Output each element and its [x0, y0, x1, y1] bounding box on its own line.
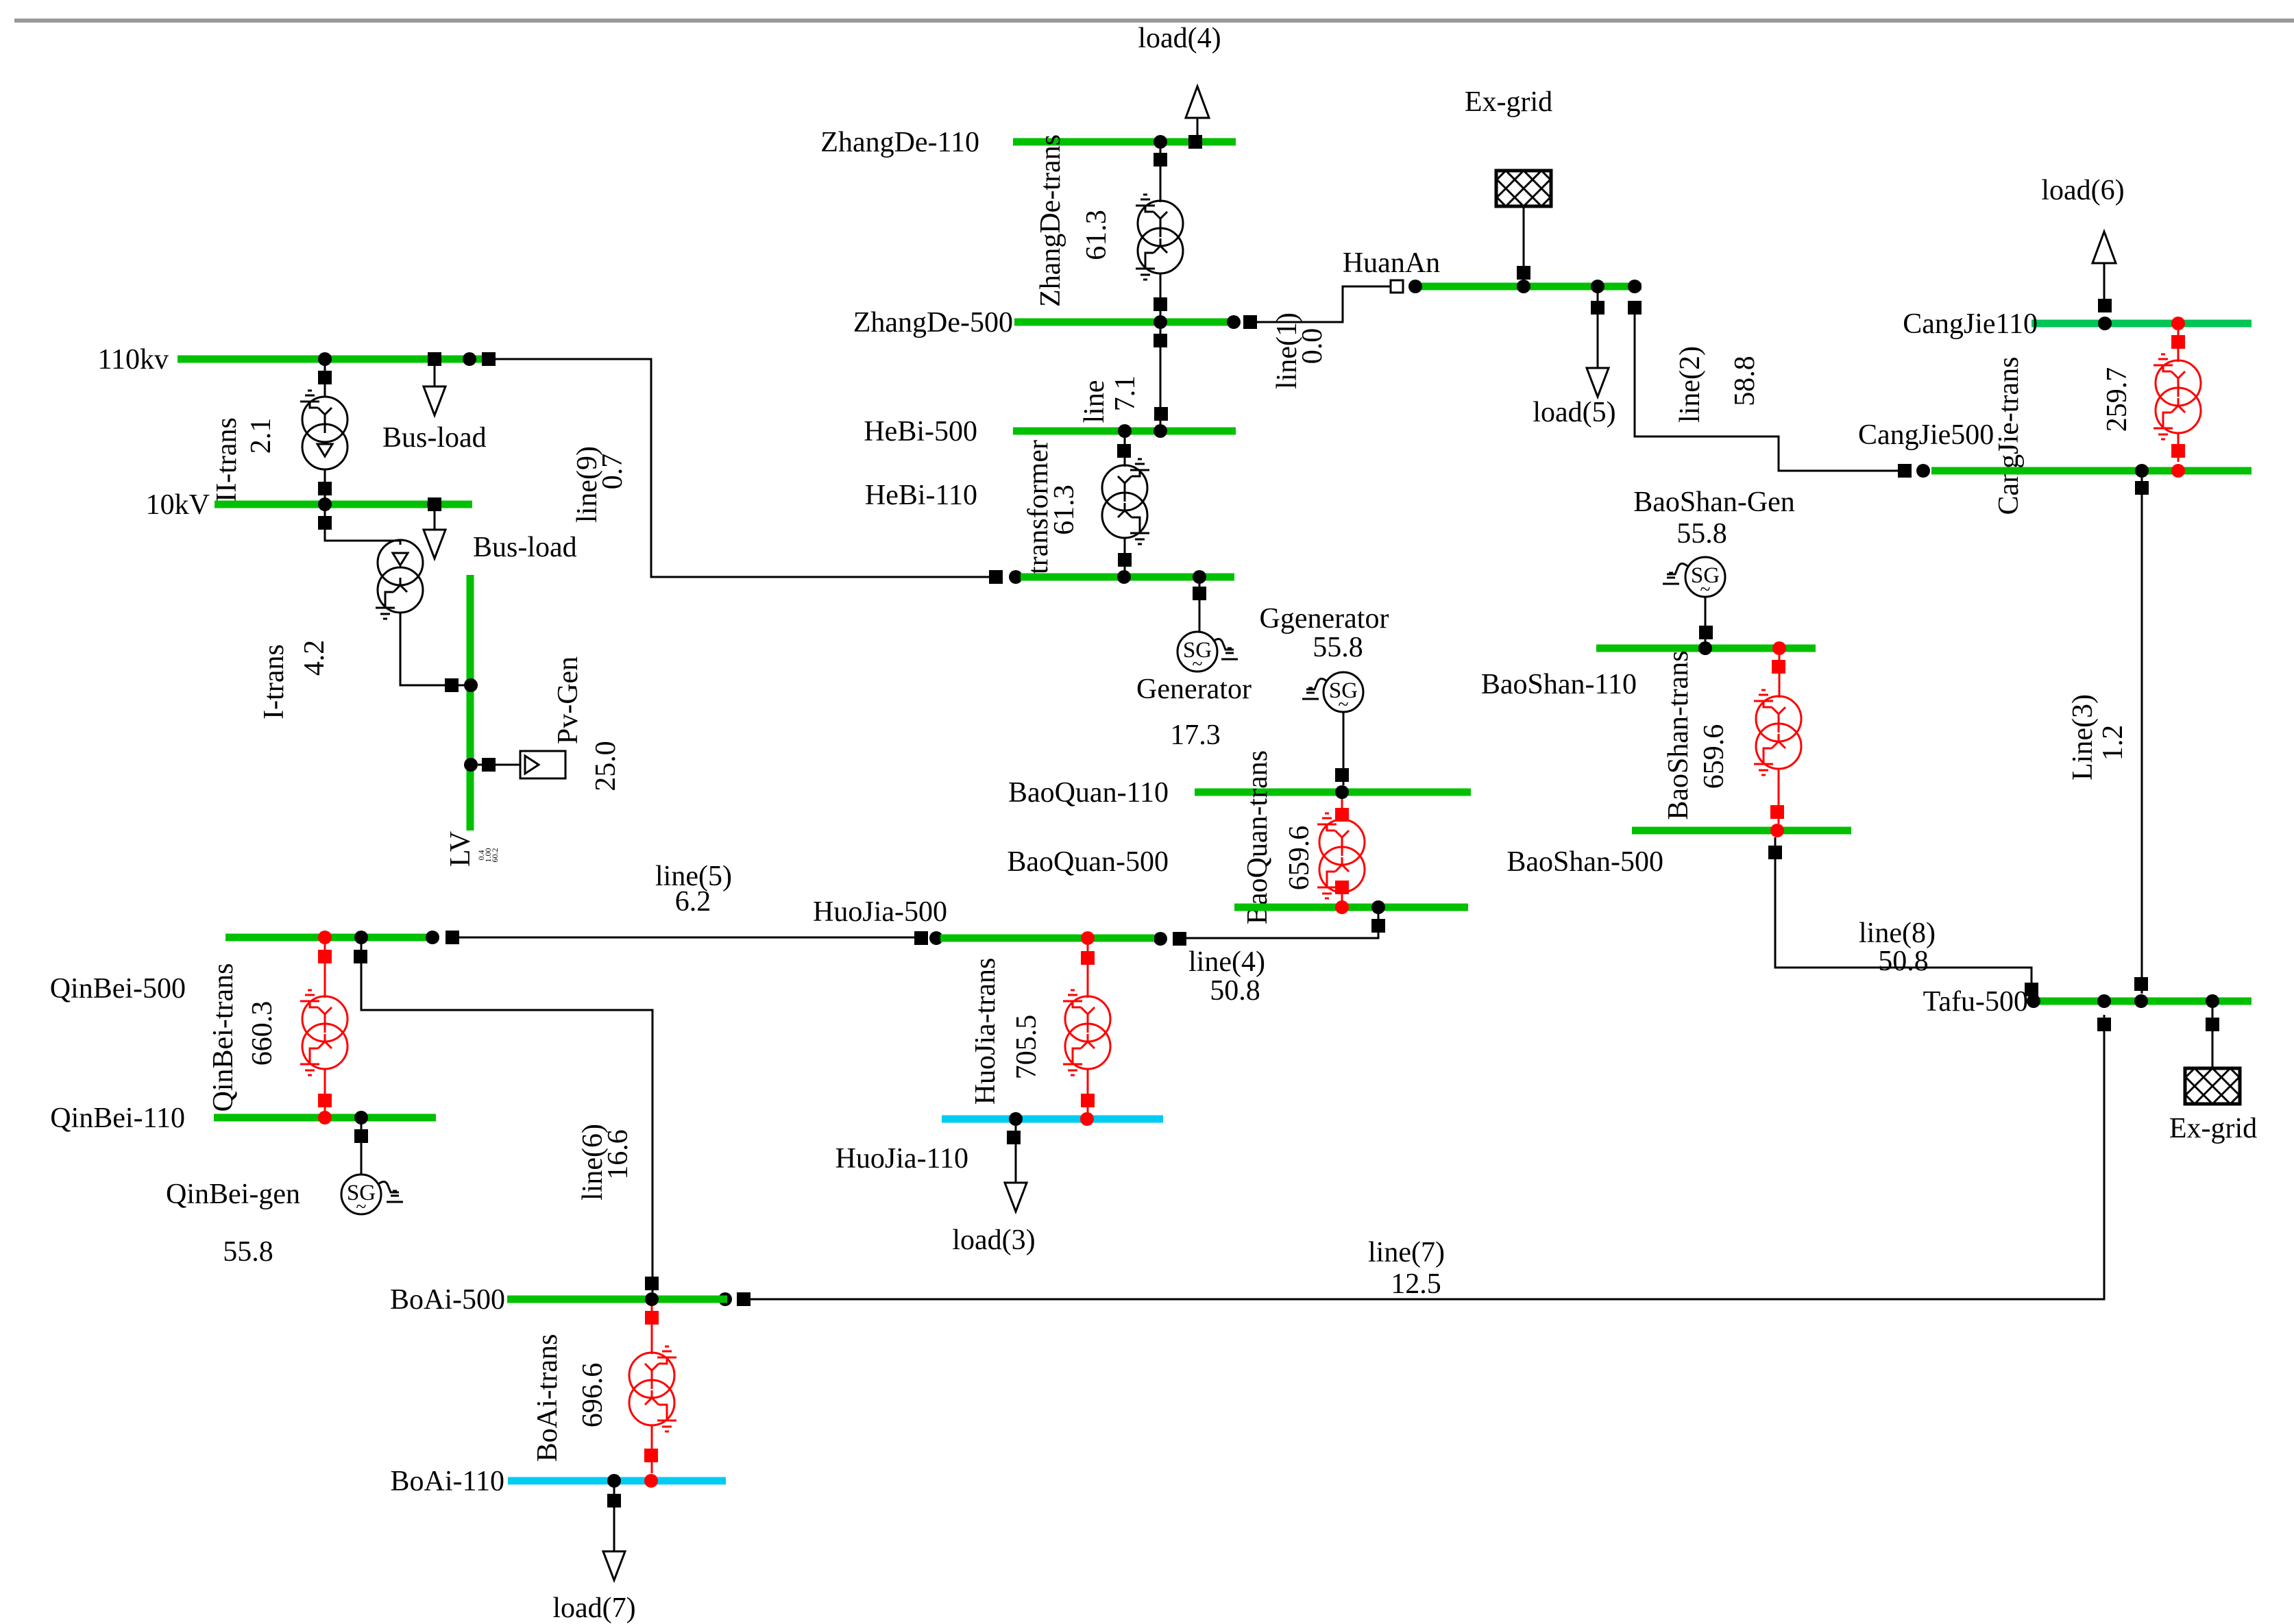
svg-text:1.2: 1.2	[2097, 725, 2129, 761]
svg-text:4.2: 4.2	[299, 640, 330, 676]
transformer HuoJia-trans 705.5	[970, 945, 1110, 1114]
node dot BoAi-110 load tap	[607, 1474, 621, 1488]
external grid Ex-grid (HuanAn)	[1465, 86, 1552, 281]
node red dot BoAi-110	[644, 1474, 658, 1488]
svg-text:BoAi-500: BoAi-500	[390, 1284, 505, 1316]
node red dot BaoShan-500 trans tap	[1770, 824, 1784, 837]
svg-text:12.5: 12.5	[1391, 1268, 1441, 1300]
transformer BoAi-trans 696.6	[532, 1306, 676, 1473]
transformer BaoShan-trans 659.6	[1663, 650, 1801, 824]
svg-text:Bus-load: Bus-load	[473, 532, 577, 563]
svg-text:BaoShan-trans: BaoShan-trans	[1663, 650, 1694, 820]
svg-text:CangJie500: CangJie500	[1858, 419, 1994, 451]
svg-text:Pv-Gen: Pv-Gen	[552, 656, 584, 744]
external grid Ex-grid (Tafu)	[2169, 1008, 2257, 1144]
svg-text:CangJie110: CangJie110	[1903, 308, 2038, 340]
bus QinBei-110	[50, 1103, 436, 1134]
svg-text:50.8: 50.8	[1878, 946, 1929, 977]
bus HuanAn	[1343, 247, 1642, 286]
svg-text:259.7: 259.7	[2101, 367, 2133, 432]
transformer BaoQuan-trans 659.6	[1242, 750, 1365, 924]
bus 10kV	[146, 489, 472, 521]
svg-text:BaoQuan-trans: BaoQuan-trans	[1242, 750, 1273, 924]
node dot Tafu-500 exgrid tap	[2206, 994, 2219, 1008]
svg-text:line(4): line(4)	[1188, 946, 1265, 978]
svg-text:2.1: 2.1	[245, 418, 277, 454]
svg-text:QinBei-500: QinBei-500	[50, 973, 186, 1005]
bus HuoJia-110	[835, 1119, 1163, 1174]
bus 110kv	[98, 344, 488, 376]
node red dot BaoQuan-500 trans	[1335, 900, 1349, 914]
svg-text:BaoQuan-110: BaoQuan-110	[1008, 777, 1169, 809]
load load(6)	[2041, 175, 2124, 312]
svg-text:Ggenerator: Ggenerator	[1260, 603, 1389, 635]
node dot CangJie500 line3 tap	[2135, 464, 2149, 478]
line label line 7.1	[1079, 376, 1141, 423]
line L2 label line(2) 58.8	[1674, 346, 1761, 423]
node junction BaoShan-110 gen	[1698, 641, 1712, 655]
svg-text:BoAi-trans: BoAi-trans	[532, 1334, 563, 1462]
node dot QinBei-500 line6 tap	[354, 931, 368, 944]
svg-text:Tafu-500: Tafu-500	[1923, 986, 2028, 1018]
svg-text:QinBei-110: QinBei-110	[50, 1103, 185, 1134]
wire line(5)	[446, 931, 943, 945]
svg-text:BaoShan-110: BaoShan-110	[1481, 669, 1637, 700]
line L6 label line(6) 16.6	[577, 1124, 634, 1201]
node red dot CangJie110 trans tap	[2171, 317, 2185, 330]
node dot Tafu-500 line7 tap	[2097, 994, 2111, 1008]
svg-text:50.8: 50.8	[1210, 975, 1260, 1007]
svg-text:659.6: 659.6	[1284, 826, 1315, 891]
transformer QinBei-trans 660.3	[208, 944, 347, 1114]
svg-text:HeBi-500: HeBi-500	[864, 416, 977, 447]
node dot CangJie110 load tap	[2098, 317, 2112, 330]
wire line between ZhangDe-500 and HeBi-500	[1154, 329, 1168, 424]
generator BaoShan-Gen SG 55.8	[1633, 487, 1795, 643]
node dot LV I-trans	[464, 678, 478, 692]
bus ZhangDe-110	[820, 127, 1236, 158]
node dot HuoJia-110 load tap	[1009, 1112, 1023, 1126]
wire line(6)	[354, 944, 659, 1292]
node dot 10kV load tap	[427, 497, 441, 511]
line L4 label line(4) 50.8	[1188, 946, 1265, 1007]
bus BoAi-500	[390, 1284, 727, 1316]
wire line(2)	[1628, 301, 1930, 478]
load load(5)	[1533, 293, 1615, 428]
svg-text:0.7: 0.7	[597, 454, 629, 490]
generator QinBei-gen SG	[166, 1124, 403, 1268]
svg-text:HuanAn: HuanAn	[1343, 247, 1440, 279]
svg-text:Line(3): Line(3)	[2067, 694, 2099, 780]
node red dot HuoJia-500 trans tap	[1081, 931, 1095, 945]
svg-text:55.8: 55.8	[1676, 518, 1727, 550]
svg-text:Bus-load: Bus-load	[382, 422, 487, 454]
svg-text:load(4): load(4)	[1138, 23, 1221, 54]
wire line(8)	[1768, 837, 2038, 997]
generator Pv-Gen	[478, 656, 622, 791]
svg-text:BoAi-110: BoAi-110	[391, 1466, 504, 1497]
wire line(7)	[718, 1015, 2111, 1306]
svg-text:10kV: 10kV	[146, 489, 210, 521]
node junction on 10kV	[318, 497, 332, 511]
svg-text:25.0: 25.0	[590, 741, 622, 791]
load load(7)	[552, 1488, 635, 1624]
wire 10kV to I-trans	[318, 508, 400, 545]
bus BaoQuan-110	[1008, 777, 1471, 809]
svg-text:HeBi-110: HeBi-110	[865, 480, 977, 511]
node junction ZhangDe-110	[1154, 135, 1167, 149]
svg-text:LV: LV	[445, 831, 476, 867]
node dot Tafu-500 line3	[2134, 994, 2148, 1008]
load Bus-load (110kv)	[382, 352, 487, 454]
svg-text:17.3: 17.3	[1170, 719, 1221, 751]
svg-text:Generator: Generator	[1136, 674, 1252, 705]
node dot HuanAn left	[1408, 280, 1422, 293]
generator Generator SG 17.3	[1136, 584, 1252, 751]
svg-text:line(8): line(8)	[1859, 918, 1936, 949]
line L1 label line(1) 0.0	[1271, 312, 1328, 389]
svg-text:60.2: 60.2	[490, 848, 500, 863]
node dot ZhangDe-500 right	[1227, 315, 1241, 329]
node red dot QinBei-500 trans tap	[318, 931, 332, 944]
wire Line(3)	[2134, 478, 2149, 994]
svg-text:6.2: 6.2	[675, 886, 711, 918]
node dot QinBei-500 line5 end	[426, 931, 439, 944]
node dot HeBi-110 gen tap	[1193, 570, 1206, 584]
node red dot QinBei-110	[318, 1111, 332, 1124]
svg-text:0.0: 0.0	[1297, 328, 1328, 365]
node red dot CangJie500 trans tap	[2171, 464, 2185, 478]
svg-text:load(3): load(3)	[952, 1225, 1035, 1256]
node junction HuanAn ex-grid	[1517, 280, 1530, 293]
svg-text:CangJie-trans: CangJie-trans	[1993, 357, 2025, 515]
bus HuoJia-500	[813, 896, 1154, 938]
node dot HeBi-500 line end	[1154, 424, 1167, 438]
svg-text:55.8: 55.8	[1313, 632, 1363, 663]
node red dot BaoShan-110 trans tap	[1772, 641, 1786, 655]
svg-text:660.3: 660.3	[247, 1001, 278, 1066]
svg-text:659.6: 659.6	[1698, 724, 1730, 789]
bus CangJie500	[1858, 419, 2252, 471]
load Bus-load (10kV)	[424, 497, 577, 563]
svg-text:I-trans: I-trans	[258, 644, 290, 719]
svg-text:ZhangDe-500: ZhangDe-500	[853, 307, 1013, 339]
node junction BaoQuan-110	[1335, 785, 1349, 799]
svg-text:HuoJia-110: HuoJia-110	[835, 1143, 968, 1174]
svg-text:696.6: 696.6	[577, 1363, 609, 1428]
svg-text:load(7): load(7)	[552, 1592, 635, 1624]
svg-text:HuoJia-trans: HuoJia-trans	[970, 958, 1001, 1105]
transformer ZhangDe-trans 61.3	[1035, 134, 1183, 319]
svg-text:QinBei-gen: QinBei-gen	[166, 1179, 300, 1210]
svg-text:7.1: 7.1	[1110, 376, 1141, 412]
svg-text:line(7): line(7)	[1368, 1237, 1445, 1268]
svg-text:58.8: 58.8	[1729, 356, 1761, 406]
transformer CangJie-trans 259.7	[1993, 330, 2201, 515]
line L7 label line(7) 12.5	[1368, 1237, 1445, 1300]
bus HeBi-110	[865, 480, 1234, 577]
svg-text:line(2): line(2)	[1674, 346, 1706, 423]
svg-text:BaoQuan-500: BaoQuan-500	[1007, 846, 1169, 878]
node dot HuanAn load5	[1591, 280, 1604, 293]
node dot LV PV tap	[464, 758, 478, 772]
svg-text:Ex-grid: Ex-grid	[1465, 86, 1552, 118]
node junction ZhangDe-500	[1154, 315, 1167, 329]
node junction on 110kv	[318, 352, 332, 366]
svg-text:55.8: 55.8	[223, 1236, 273, 1268]
transformer II-trans	[211, 363, 347, 502]
node red dot HuoJia-110	[1080, 1112, 1094, 1126]
svg-text:110kv: 110kv	[98, 344, 169, 376]
svg-text:705.5: 705.5	[1011, 1015, 1042, 1080]
svg-text:ZhangDe-110: ZhangDe-110	[820, 127, 979, 158]
node dot Tafu-500 line8	[2027, 994, 2040, 1008]
bus BaoQuan-500	[1007, 846, 1468, 907]
bus Tafu-500	[1923, 986, 2252, 1018]
node dot 110kv right	[463, 352, 476, 366]
bus BoAi-110	[391, 1466, 726, 1497]
svg-text:BaoShan-500: BaoShan-500	[1506, 846, 1663, 878]
svg-text:16.6: 16.6	[602, 1129, 634, 1180]
wire line(1)	[1243, 280, 1403, 329]
line L8 label line(8) 50.8	[1859, 918, 1936, 977]
node dot QinBei-110 gen tap	[354, 1111, 368, 1124]
svg-text:line: line	[1079, 380, 1110, 423]
svg-text:61.3: 61.3	[1081, 210, 1112, 260]
frame rule top	[14, 19, 2294, 23]
svg-text:load(6): load(6)	[2041, 175, 2124, 206]
svg-text:61.3: 61.3	[1049, 484, 1080, 535]
transformer transformer 61.3 (HeBi)	[1023, 438, 1149, 574]
line L5 label line(5) 6.2	[655, 861, 732, 918]
bus BaoShan-110	[1481, 648, 1816, 700]
wire line(9)	[482, 352, 1023, 584]
node dot HuanAn line2	[1628, 280, 1642, 293]
load load(3)	[952, 1126, 1035, 1256]
node dot BaoQuan-500 line4 tap	[1371, 900, 1385, 914]
node junction HeBi-110 trans	[1117, 570, 1131, 584]
bus HeBi-500	[864, 416, 1236, 447]
bus LV	[445, 575, 500, 867]
bus BaoShan-500	[1506, 831, 1851, 878]
bus QinBei-500	[50, 937, 438, 1005]
node junction HeBi-500	[1118, 424, 1132, 438]
generator Ggenerator SG 55.8	[1260, 603, 1389, 785]
line L9 label line(9) 0.7	[572, 446, 629, 523]
transformer I-trans	[258, 540, 423, 719]
svg-text:BaoShan-Gen: BaoShan-Gen	[1633, 487, 1795, 518]
node junction BoAi-500 line6	[645, 1292, 659, 1306]
wire line(4)	[1154, 914, 1385, 946]
line L3 label Line(3) 1.2	[2067, 694, 2129, 780]
svg-text:Ex-grid: Ex-grid	[2169, 1113, 2257, 1144]
bus ZhangDe-500	[853, 307, 1239, 339]
svg-text:QinBei-trans: QinBei-trans	[208, 963, 239, 1112]
svg-text:load(5): load(5)	[1533, 397, 1615, 428]
svg-text:II-trans: II-trans	[211, 417, 243, 502]
bus CangJie110	[1903, 308, 2252, 340]
svg-text:ZhangDe-trans: ZhangDe-trans	[1035, 134, 1066, 307]
wire I-trans to LV	[400, 613, 467, 692]
svg-text:HuoJia-500: HuoJia-500	[813, 896, 947, 928]
load load(4)	[1138, 23, 1221, 149]
